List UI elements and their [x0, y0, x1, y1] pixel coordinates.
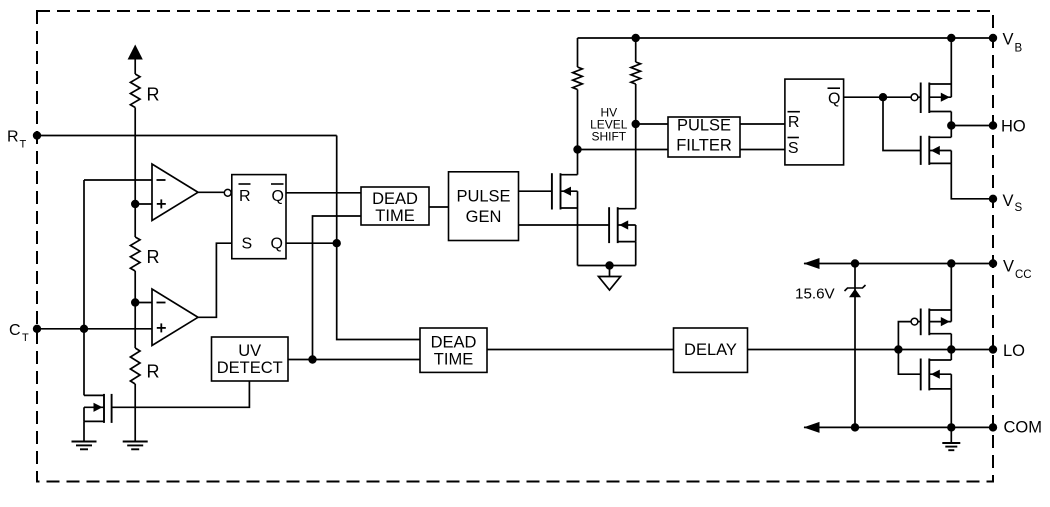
wire bubble to Q3 gate	[918, 96, 921, 98]
node divider lower tap	[131, 298, 139, 306]
node R5 top rail	[632, 34, 640, 42]
transistor Q6 LO low-side NMOS	[928, 359, 930, 391]
svg-text:R: R	[147, 247, 160, 267]
wire CT to M1 drain	[83, 329, 85, 396]
resistor R5	[635, 38, 637, 62]
pin COM	[989, 423, 997, 431]
resistor R4	[577, 38, 579, 67]
wire LO driver lower gate	[898, 350, 920, 375]
wire pulse gen out top	[519, 190, 552, 192]
wire U1 output	[198, 191, 224, 193]
svg-text:Q: Q	[272, 188, 284, 205]
arrow COM rail left	[804, 422, 820, 433]
wire M1 source to ground	[83, 421, 85, 441]
wire divider upper	[134, 108, 136, 238]
ground under R3	[123, 441, 148, 443]
node LO output	[947, 345, 955, 353]
svg-text:T: T	[22, 332, 29, 344]
node HO output	[947, 121, 955, 129]
svg-text:T: T	[20, 139, 27, 151]
node UV line junction	[308, 355, 316, 363]
svg-text:Q: Q	[271, 236, 283, 253]
svg-text:PULSE: PULSE	[677, 117, 731, 135]
wire Q4 source to VS	[951, 163, 993, 198]
svg-text:R: R	[7, 129, 19, 146]
wire common source rail	[578, 265, 636, 267]
node VB rail junction	[947, 34, 955, 42]
resistor R2	[130, 237, 140, 271]
ground at COM	[942, 442, 960, 444]
wire Q5 drain to LO node	[950, 334, 952, 350]
wire Q6 drain to LO node	[950, 350, 952, 361]
wire U2 output to S input	[198, 243, 232, 317]
svg-text:R: R	[147, 361, 160, 381]
wire UV line to dead time 1 lower input	[313, 216, 362, 360]
zener D1 15.6V	[854, 264, 856, 428]
wire LO driver upper gate	[898, 322, 911, 350]
bubble U3 R input	[224, 189, 231, 196]
svg-text:Q: Q	[828, 91, 840, 108]
svg-text:DELAY: DELAY	[684, 341, 737, 359]
wire divider lower	[134, 384, 136, 442]
transistor Q3 HO high-side PMOS	[928, 83, 930, 114]
node R5 bottom	[632, 120, 640, 128]
block pulse filter	[668, 117, 740, 157]
svg-text:COM: COM	[1004, 419, 1043, 437]
svg-text:R: R	[239, 188, 251, 205]
svg-text:UV: UV	[238, 342, 261, 360]
svg-text:S: S	[788, 140, 799, 157]
wire delay out to LO driver	[748, 349, 994, 351]
wire Q1 drain up	[577, 150, 579, 175]
wire Q2 drain up	[635, 124, 637, 209]
pin VB	[989, 34, 997, 42]
pin VS	[989, 195, 997, 203]
svg-text:DEAD: DEAD	[372, 190, 418, 208]
wire VB rail	[578, 37, 994, 39]
wire Q5 source to VCC rail	[950, 264, 952, 311]
wire pulse gen out bottom	[519, 224, 610, 226]
svg-text:TIME: TIME	[434, 350, 473, 368]
pin HO	[989, 121, 997, 129]
arrow VCC rail left	[804, 258, 820, 269]
flip-flop U3 RS latch box	[232, 175, 286, 259]
wire Q2 source down	[635, 242, 637, 266]
wire Q6 source to COM rail	[950, 389, 952, 428]
transistor M1 UV pulldown NMOS	[103, 394, 105, 423]
wire bubble to Q5 gate	[918, 321, 921, 323]
wire U1 plus input	[135, 203, 152, 205]
node Q5 source rail	[947, 259, 955, 267]
transistor Q2 HV level shift	[617, 207, 619, 243]
node LO driver input	[894, 345, 902, 353]
op-amp U2 comparator	[152, 289, 198, 346]
svg-text:B: B	[1015, 43, 1023, 55]
wire HO node to pin	[951, 125, 993, 127]
signal ground triangle	[599, 277, 621, 291]
wire UV detect to M1 gate	[112, 381, 250, 407]
wire dead time 1 to pulse gen	[429, 206, 449, 208]
transistor Q5 LO high-side PMOS	[928, 309, 930, 336]
wire VCC rail	[804, 263, 993, 265]
wire U2 minus input	[135, 302, 152, 304]
wire RT feedback vertical to dead-time 2	[337, 136, 420, 340]
svg-text:DETECT: DETECT	[217, 359, 283, 377]
block pulse gen	[449, 172, 519, 241]
wire DT2 out to delay	[487, 349, 674, 351]
block UV detect	[212, 337, 289, 381]
node CT junction	[80, 325, 88, 333]
node R4 bottom	[573, 145, 581, 153]
node COM ground junction	[947, 423, 955, 431]
pin CT	[33, 325, 41, 333]
svg-text:V: V	[1003, 258, 1014, 276]
bubble Q5 gate	[911, 318, 918, 325]
svg-text:R: R	[788, 114, 800, 131]
svg-text:V: V	[1003, 30, 1014, 48]
label U2 minus sign	[157, 302, 166, 304]
wire Q4 drain to HO node	[950, 126, 952, 138]
svg-text:R: R	[147, 85, 160, 105]
svg-text:S: S	[1015, 202, 1023, 214]
wire Q3 source to VB rail	[950, 38, 952, 84]
transistor Q4 HO low-side NMOS	[928, 136, 930, 165]
block dead time 1	[361, 187, 429, 225]
svg-text:FILTER: FILTER	[676, 137, 732, 155]
svg-text:LO: LO	[1003, 342, 1025, 360]
label U1 plus sign	[157, 203, 166, 205]
svg-text:GEN: GEN	[466, 208, 502, 226]
flip-flop U4 latch box	[785, 79, 844, 165]
wire RT horizontal	[37, 135, 337, 137]
node common source	[605, 261, 613, 269]
svg-text:S: S	[242, 236, 253, 253]
node Q RT junction	[333, 239, 341, 247]
wire COM rail	[804, 426, 993, 428]
svg-text:V: V	[1003, 192, 1014, 210]
pin LO	[989, 345, 997, 353]
wire HO driver lower gate	[883, 97, 921, 150]
svg-text:C: C	[9, 322, 21, 339]
wire CT horizontal	[37, 328, 152, 330]
label U2 plus sign	[157, 327, 166, 329]
wire Q3 drain to HO node	[950, 112, 952, 126]
node divider upper tap	[131, 200, 139, 208]
svg-text:PULSE: PULSE	[456, 187, 510, 205]
pin RT	[33, 131, 41, 139]
block dead time 2	[420, 328, 487, 372]
node zener top	[851, 259, 859, 267]
wire U1 minus input	[84, 179, 152, 181]
svg-text:DEAD: DEAD	[431, 333, 477, 351]
wire divider mid	[134, 271, 136, 348]
resistor R1	[130, 74, 140, 108]
node HO driver input	[879, 93, 887, 101]
pin VCC	[989, 259, 997, 267]
block delay	[674, 328, 748, 372]
wire U3 Q output	[286, 242, 337, 244]
ground under M1	[72, 441, 97, 443]
svg-text:TIME: TIME	[375, 207, 414, 225]
VCC supply arrow up	[128, 45, 143, 60]
node zener bottom	[851, 423, 859, 431]
op-amp U1 comparator	[152, 164, 198, 221]
svg-text:15.6V: 15.6V	[795, 285, 836, 302]
wire U4 Qbar output	[844, 96, 912, 98]
svg-text:CC: CC	[1015, 269, 1032, 281]
wire pulse filter to U4 Rbar	[740, 123, 785, 125]
label U1 minus sign	[157, 179, 166, 181]
wire R4 node to pulse filter	[578, 149, 669, 151]
bubble Q3 gate	[911, 94, 918, 101]
svg-text:HO: HO	[1001, 118, 1026, 136]
wire U3 Qbar to dead time 1	[286, 192, 361, 194]
svg-text:SHIFT: SHIFT	[591, 130, 626, 144]
wire pulse filter to U4 Sbar	[740, 149, 785, 151]
wire R5 node to pulse filter	[636, 123, 668, 125]
wire UV detect output	[288, 359, 420, 361]
wire ground stub	[950, 427, 952, 443]
wire stub to signal ground	[609, 266, 611, 277]
resistor R3	[130, 348, 140, 384]
transistor Q1 HV level shift	[560, 173, 562, 209]
wire Q1 source down	[577, 208, 579, 266]
